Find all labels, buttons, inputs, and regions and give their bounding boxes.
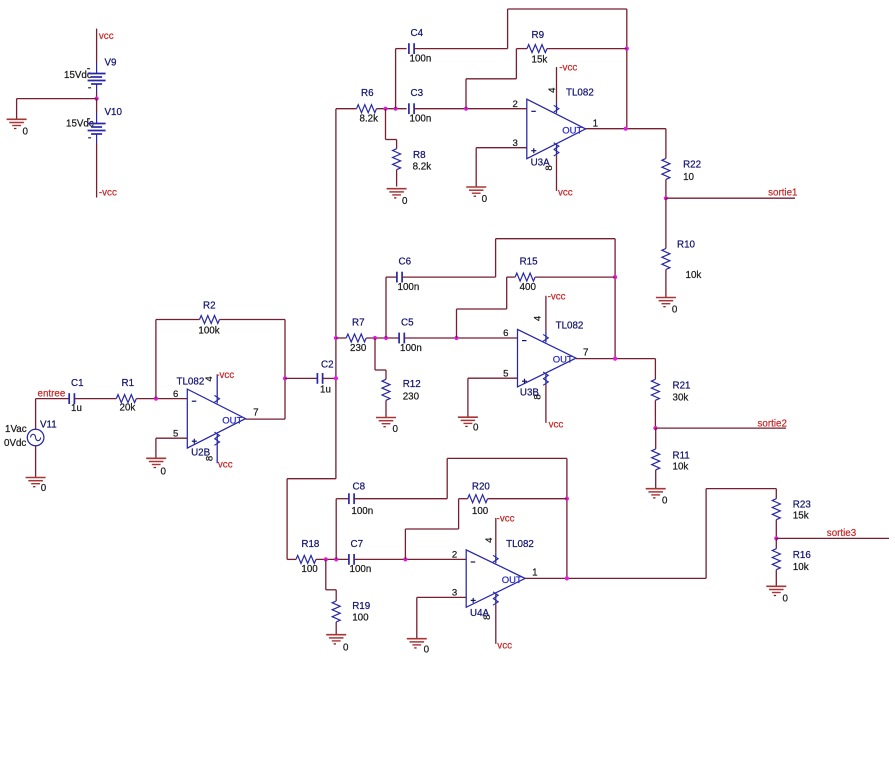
svg-text:30k: 30k (673, 393, 689, 404)
svg-text:100: 100 (352, 613, 369, 624)
ground 0 (R10) (656, 297, 676, 299)
wire top feedback horizontal (stage1) (508, 8, 627, 10)
wire U2B output (246, 418, 286, 420)
svg-text:1u: 1u (71, 403, 82, 414)
svg-text:vcc: vcc (549, 419, 564, 430)
svg-text:0: 0 (161, 467, 167, 478)
op-amp U4A V- power pin 4 wire (495, 518, 497, 552)
svg-text:R18: R18 (301, 539, 320, 550)
capacitor C8 (348, 493, 350, 504)
wire top-loop left vertical (stage2) (495, 239, 497, 277)
junction node main vertical / R7 (334, 336, 338, 340)
svg-text:entree: entree (38, 389, 66, 400)
svg-text:8.2k: 8.2k (360, 114, 379, 125)
svg-text:3: 3 (512, 138, 517, 149)
svg-text:230: 230 (403, 392, 420, 403)
wire top-loop right vertical (stage2) (614, 239, 616, 359)
ground 0 (power supply) (7, 118, 27, 120)
wire feedback right vertical (284, 320, 286, 420)
wire R18 to node X3 (316, 558, 349, 560)
wire stage3 vertical to R18 (287, 558, 296, 560)
ground 0 (R19) (326, 634, 346, 636)
wire C7 to U4A pin 2 (354, 558, 466, 560)
wire top feedback horizontal (stage3) (447, 457, 567, 459)
svg-text:0: 0 (783, 594, 789, 605)
ground 0 (R16) (766, 585, 786, 587)
svg-text:vcc: vcc (497, 640, 512, 651)
svg-text:C1: C1 (71, 378, 84, 389)
wire R12 branch jog (375, 369, 386, 371)
svg-text:-vcc: -vcc (559, 63, 577, 74)
junction node X1a (R8 branch) (383, 107, 387, 111)
wire inv-node jog vertical (stage3) (404, 529, 406, 559)
svg-text:0Vdc: 0Vdc (4, 438, 26, 449)
resistor R11 (655, 428, 657, 449)
svg-text:0: 0 (343, 643, 349, 654)
wire jog up to R20 (458, 499, 460, 529)
wire C8 left lead (336, 498, 349, 500)
wire C8 to top-loop left vertical (stage3) (354, 498, 447, 500)
op-amp U2B body (TL082 triangle) (187, 389, 245, 448)
wire R20 left lead (459, 498, 468, 500)
wire feedback vertical left (155, 320, 157, 399)
svg-text:10k: 10k (686, 270, 702, 281)
svg-text:-vcc: -vcc (99, 188, 117, 199)
wire V10 to -vcc (96, 144, 98, 198)
junction node inverting input U3B (454, 336, 458, 340)
svg-text:C8: C8 (353, 482, 366, 493)
svg-text:U2B: U2B (191, 448, 211, 459)
wire V11 to entree node (35, 399, 37, 430)
svg-text:R2: R2 (203, 300, 216, 311)
svg-text:100n: 100n (351, 506, 373, 517)
svg-text:R1: R1 (122, 378, 135, 389)
svg-text:C4: C4 (411, 28, 424, 39)
svg-text:10k: 10k (793, 562, 809, 573)
svg-text:0: 0 (473, 423, 479, 434)
wire U3B pin 5 horizontal (468, 377, 518, 379)
wire junction to V10 (96, 99, 98, 113)
wire R9 left lead (516, 48, 527, 50)
svg-text:100n: 100n (398, 282, 420, 293)
svg-text:15k: 15k (793, 511, 809, 522)
svg-text:R11: R11 (673, 451, 690, 462)
svg-text:R10: R10 (677, 240, 696, 251)
svg-text:6: 6 (503, 328, 508, 339)
wire inv-node jog horizontal (stage3) (405, 528, 458, 530)
junction node X2a (R12 branch) (373, 336, 377, 340)
svg-text:TL082: TL082 (556, 321, 584, 332)
svg-text:C6: C6 (399, 257, 412, 268)
svg-text:230: 230 (350, 343, 367, 354)
wire C5 to U3B pin 6 (404, 337, 517, 339)
svg-text:-vcc: -vcc (548, 291, 566, 302)
ground 0 (V11 source) (26, 477, 46, 479)
capacitor C5 (398, 333, 400, 344)
junction node main vertical / C2 (334, 376, 338, 380)
svg-text:R15: R15 (520, 257, 539, 268)
svg-text:TL082: TL082 (566, 88, 594, 99)
wire top-loop right vertical (stage1) (626, 9, 628, 129)
junction node U3B output / feedback (613, 357, 617, 361)
resistor R15 (515, 273, 535, 281)
svg-text:100k: 100k (198, 326, 219, 337)
wire feedback top to R2 (156, 319, 200, 321)
svg-text:5: 5 (173, 428, 178, 439)
wire V11 bottom to ground (35, 446, 37, 478)
capacitor C6 (396, 272, 398, 283)
wire C3 to U3A pin 2 (414, 108, 527, 110)
resistor R2 (200, 316, 220, 324)
svg-text:V9: V9 (105, 58, 117, 69)
svg-text:100: 100 (472, 506, 489, 517)
wire R2 to feedback right vertical (220, 319, 286, 321)
svg-text:10: 10 (683, 172, 694, 183)
resistor R7 (346, 334, 366, 342)
junction node sortie1 (664, 196, 668, 200)
resistor R10 (665, 198, 667, 248)
junction node R1 / R2 feedback (154, 397, 158, 401)
junction node U3A output / feedback (624, 127, 628, 131)
wire V9 to junction (96, 93, 98, 99)
wire main input vertical (C2 node to filter stages) (335, 109, 337, 479)
resistor R20 (468, 495, 488, 503)
wire R19 branch vertical (325, 559, 327, 589)
wire R1 to pin 6 of U2B (136, 398, 187, 400)
op-amp U3B V- power pin 4 wire (545, 296, 547, 332)
junction node R9 right / feedback (625, 47, 629, 51)
wire inv-node jog horizontal (stage2) (457, 308, 507, 310)
wire R8 branch jog (386, 139, 397, 141)
wire stage3 input vertical (286, 479, 288, 560)
op-amp U4A body (TL082 triangle) (466, 550, 525, 607)
svg-text:R20: R20 (472, 482, 491, 493)
svg-text:vcc: vcc (99, 31, 114, 42)
svg-text:0: 0 (482, 194, 488, 205)
svg-text:5: 5 (503, 368, 508, 379)
resistor R8 (396, 140, 398, 149)
junction node between V9 and V10 (95, 97, 99, 101)
junction node X3a (R19 branch) (324, 557, 328, 561)
op-amp U3A V+ power pin 8 wire (556, 145, 558, 155)
capacitor C3 (408, 103, 410, 114)
wire top-loop left vertical (507, 9, 509, 49)
resistor R21 (654, 359, 656, 380)
svg-text:15k: 15k (532, 55, 548, 66)
resistor R9 (527, 45, 547, 53)
wire R6 to node X1 (377, 108, 407, 110)
op-amp U3B V+ power pin 8 wire (545, 374, 547, 384)
wire C6 branch vertical (385, 277, 387, 338)
wire U3B pin 5 to ground (467, 378, 469, 417)
wire R8 branch vertical (385, 109, 387, 140)
resistor R12 (385, 370, 387, 379)
wire main vertical to stage3 (horizontal) (287, 478, 336, 480)
svg-text:OUT: OUT (553, 355, 573, 366)
svg-text:4: 4 (547, 87, 558, 93)
wire inv-node jog vertical (stage2) (456, 309, 458, 338)
svg-text:2: 2 (512, 99, 517, 110)
wire inv-node jog horizontal (466, 78, 516, 80)
wire jog up to R9 (515, 49, 517, 79)
ground 0 (U4A pin 3) (407, 638, 427, 640)
svg-text:C2: C2 (321, 359, 334, 370)
op-amp U4A V+ power pin 8 wire (495, 594, 497, 604)
svg-text:3: 3 (452, 588, 457, 599)
svg-text:TL082: TL082 (177, 377, 205, 388)
svg-text:V11: V11 (40, 420, 57, 431)
AC source V11 circle (27, 429, 44, 446)
op-amp U2B V+ power pin 8 wire (216, 434, 218, 463)
svg-text:100: 100 (301, 564, 318, 575)
wire R15 right lead (535, 276, 615, 278)
wire U3A pin 3 to ground (475, 148, 477, 187)
wire top-loop left vertical (stage3) (446, 458, 448, 498)
svg-text:4: 4 (484, 537, 495, 543)
svg-text:1: 1 (593, 118, 598, 129)
wire C4 left lead (396, 48, 407, 50)
junction node inverting input U3A (464, 107, 468, 111)
svg-text:OUT: OUT (502, 575, 522, 586)
wire top feedback horizontal (stage2) (496, 238, 615, 240)
op-amp U3A V- power pin 4 wire (556, 67, 558, 102)
junction node sortie2 (653, 426, 657, 430)
junction node inverting input U4A (403, 557, 407, 561)
svg-text:U4A: U4A (470, 608, 490, 619)
wire C2 right lead (323, 377, 336, 379)
svg-text:2: 2 (452, 550, 457, 561)
wire inv-node jog vertical (465, 79, 467, 109)
svg-text:vcc: vcc (558, 187, 573, 198)
wire C6 left lead (386, 276, 397, 278)
svg-text:4: 4 (533, 315, 544, 321)
svg-text:R12: R12 (403, 379, 421, 390)
wire R15 left lead (507, 276, 515, 278)
junction node C2 tap on U2B output (283, 376, 287, 380)
svg-text:U3B: U3B (520, 388, 540, 399)
wire output detour vertical (stage3) (705, 489, 707, 579)
svg-text:-vcc: -vcc (497, 513, 515, 524)
wire R9 right lead (547, 48, 627, 50)
wire C6 to top-loop left vertical (stage2) (402, 276, 496, 278)
junction node X3b (C8 branch) (334, 557, 338, 561)
wire sortie1 (666, 197, 795, 199)
svg-text:C7: C7 (351, 539, 364, 550)
svg-text:0: 0 (662, 496, 668, 507)
svg-text:vcc: vcc (218, 460, 233, 471)
resistor R19 (335, 590, 337, 601)
svg-text:R8: R8 (413, 150, 426, 161)
wire R7 to node X2 (366, 337, 399, 339)
svg-text:1Vac: 1Vac (5, 424, 27, 435)
svg-text:4: 4 (204, 376, 215, 382)
svg-text:sortie1: sortie1 (768, 188, 797, 199)
ground 0 (U2B pin 5) (146, 457, 166, 459)
ground 0 (R8) (387, 188, 407, 190)
wire top-loop right vertical (stage3) (566, 458, 568, 578)
svg-text:8.2k: 8.2k (413, 161, 432, 172)
op-amp U2B V- power pin 4 wire (216, 374, 218, 403)
wire U4A output (525, 577, 706, 579)
svg-text:R19: R19 (352, 601, 370, 612)
wire C1 to R1 (75, 398, 117, 400)
wire U4A pin 3 horizontal (417, 596, 466, 598)
svg-text:-vcc: -vcc (216, 370, 234, 381)
wire jog up to R15 (506, 277, 508, 309)
svg-text:100n: 100n (410, 54, 432, 65)
svg-text:100n: 100n (400, 343, 422, 354)
resistor R1 (116, 395, 136, 403)
junction node sortie3 (774, 536, 778, 540)
ground 0 (U3B pin 5) (458, 416, 478, 418)
svg-text:1u: 1u (320, 384, 331, 395)
svg-text:TL082: TL082 (506, 539, 534, 550)
wire C8 branch vertical (335, 499, 337, 560)
junction node X2b (C6 branch) (384, 336, 388, 340)
wire entree to C1 (36, 398, 69, 400)
svg-text:7: 7 (253, 408, 258, 419)
wire C4 branch vertical (395, 49, 397, 109)
junction node U4A output / feedback (565, 576, 569, 580)
voltage source V9 battery symbol (96, 63, 98, 74)
op-amp U3A body (TL082 triangle) (527, 99, 586, 159)
wire sortie3 (776, 537, 889, 539)
svg-text:0: 0 (402, 196, 408, 207)
svg-text:R22: R22 (683, 160, 701, 171)
resistor R18 (296, 555, 316, 563)
resistor R16 (775, 538, 777, 548)
wire main vertical to R6 (336, 108, 357, 110)
wire sortie2 (655, 427, 786, 429)
svg-text:C3: C3 (411, 88, 424, 99)
wire vcc to V9 (96, 29, 98, 63)
junction node X1b (C4 branch) (394, 107, 398, 111)
wire U2B pin 5 to ground (155, 438, 157, 458)
wire U2B pin 5 horizontal (156, 437, 187, 439)
capacitor C7 (348, 554, 350, 565)
svg-text:20k: 20k (120, 403, 136, 414)
svg-text:0: 0 (672, 305, 678, 316)
svg-text:400: 400 (520, 282, 537, 293)
svg-text:OUT: OUT (562, 125, 582, 136)
voltage source V10 battery symbol (96, 113, 98, 124)
resistor R22 (665, 129, 667, 159)
ground 0 (R12) (376, 417, 396, 419)
wire main vertical to R7 (336, 337, 346, 339)
svg-text:U3A: U3A (531, 158, 551, 169)
svg-text:R7: R7 (352, 318, 365, 329)
wire R12 branch vertical (374, 338, 376, 370)
svg-text:sortie2: sortie2 (758, 419, 787, 430)
svg-text:0: 0 (23, 127, 29, 138)
svg-text:0: 0 (41, 483, 47, 494)
svg-text:R6: R6 (361, 88, 374, 99)
ground 0 (U3A pin 3) (466, 186, 486, 188)
resistor R23 (775, 489, 777, 499)
svg-text:100n: 100n (350, 564, 372, 575)
svg-text:R16: R16 (793, 550, 812, 561)
wire U4A pin 3 to ground (416, 597, 418, 638)
wire to power ground (vertical) (16, 99, 18, 120)
op-amp U3B body (TL082 triangle) (518, 329, 577, 387)
wire junction to ground (horizontal) (17, 98, 97, 100)
wire R20 right lead (488, 498, 567, 500)
wire C4 to top-loop left vertical (414, 48, 508, 50)
junction node R20 right / feedback (565, 497, 569, 501)
wire output detour horizontal (stage3) (706, 488, 776, 490)
svg-text:V10: V10 (105, 107, 123, 118)
svg-text:0: 0 (424, 645, 430, 656)
svg-text:100n: 100n (410, 114, 432, 125)
svg-text:R9: R9 (532, 30, 545, 41)
ground 0 (R11) (646, 488, 666, 490)
svg-text:C5: C5 (401, 318, 414, 329)
svg-text:R23: R23 (793, 500, 812, 511)
svg-text:7: 7 (583, 347, 588, 358)
svg-text:R21: R21 (673, 381, 691, 392)
wire U3B output (576, 358, 655, 360)
svg-text:OUT: OUT (222, 416, 242, 427)
capacitor C4 (408, 43, 410, 54)
resistor R6 (357, 105, 377, 113)
svg-text:1: 1 (532, 567, 537, 578)
svg-text:10k: 10k (673, 462, 689, 473)
svg-text:sortie3: sortie3 (827, 528, 857, 539)
junction node R15 right / feedback (613, 275, 617, 279)
svg-text:0: 0 (393, 424, 399, 435)
wire C2 left lead (285, 377, 317, 379)
wire U3A output (586, 128, 666, 130)
wire U3A pin 3 horizontal (476, 147, 527, 149)
wire R19 branch jog (326, 589, 336, 591)
svg-text:6: 6 (173, 389, 178, 400)
capacitor C1 (68, 393, 70, 404)
svg-text:15Vdc: 15Vdc (64, 70, 92, 81)
capacitor C2 (316, 373, 318, 384)
